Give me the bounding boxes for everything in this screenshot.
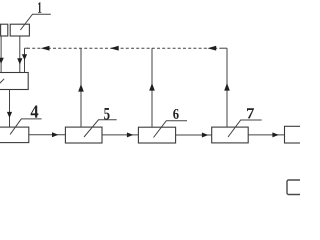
recycle bus (dashed) bbox=[27, 47, 221, 49]
label 1 bbox=[38, 2, 41, 13]
arrow right on box4-box5 wire bbox=[52, 132, 58, 137]
arrow left on bus segment 2 bbox=[110, 46, 119, 51]
wire: box 2 down to box 3 bbox=[0, 36, 2, 73]
arrow up on box6-bus wire bbox=[149, 83, 155, 91]
box 5 bbox=[65, 127, 102, 143]
box 6 bbox=[138, 127, 175, 143]
box 3 (left, clipped) bbox=[0, 73, 28, 90]
box 1 bbox=[10, 24, 29, 36]
box 4 bbox=[0, 127, 29, 143]
wire: box 1 down to box 3 bbox=[19, 36, 21, 73]
wire: box 5 up to bus bbox=[80, 48, 82, 127]
arrow left on bus segment 1 bbox=[41, 46, 50, 51]
small box bottom-right (clipped) bbox=[287, 180, 307, 195]
leader line for label 7 bbox=[228, 120, 262, 137]
wire: box 5 to box 6 bbox=[102, 134, 138, 136]
box 7 bbox=[212, 127, 249, 143]
leader line for label 1 bbox=[20, 14, 50, 30]
box 2 (top-left, clipped) bbox=[1, 24, 8, 36]
wire: box 6 up to bus bbox=[151, 48, 153, 127]
arrow right on box6-box7 wire bbox=[202, 133, 208, 138]
arrow left on bus segment 3 bbox=[208, 46, 217, 51]
arrow down into box 3 from box 1 bbox=[17, 58, 22, 64]
arrow up on box7-bus wire bbox=[224, 83, 230, 91]
arrow up on box5-bus wire bbox=[78, 84, 84, 92]
arrow down into box 3 from bus bbox=[22, 54, 27, 60]
arrow right on box7-box8 wire bbox=[272, 132, 278, 137]
arrow right on box5-box6 wire bbox=[127, 132, 133, 137]
bus right corner stub bbox=[221, 47, 228, 49]
wire: box 4 to box 5 bbox=[29, 134, 66, 136]
wire: box 7 to box 8 bbox=[248, 134, 284, 136]
wire: bus left corner down to box 3 bbox=[24, 48, 26, 72]
bus left corner stub bbox=[25, 47, 29, 49]
leader line for label 4 bbox=[10, 119, 41, 134]
label 4 bbox=[31, 106, 39, 118]
box 8 (right, clipped) bbox=[285, 126, 307, 143]
wire: box 6 to box 7 bbox=[176, 134, 212, 136]
leader line for label 5 bbox=[84, 120, 117, 137]
label 5 bbox=[104, 108, 110, 120]
wire: box 7 up to bus (right corner) bbox=[226, 48, 228, 127]
label 6 bbox=[173, 109, 179, 119]
leader line for label 6 bbox=[154, 121, 188, 138]
leader line fragment inside box 3 (label clipped at left) bbox=[0, 79, 4, 85]
arrow down into box 3 from box 2 bbox=[0, 58, 4, 64]
label 7 bbox=[247, 108, 254, 118]
arrow down into box 4 bbox=[7, 112, 12, 118]
wire: box 3 down to box 4 bbox=[9, 90, 11, 128]
